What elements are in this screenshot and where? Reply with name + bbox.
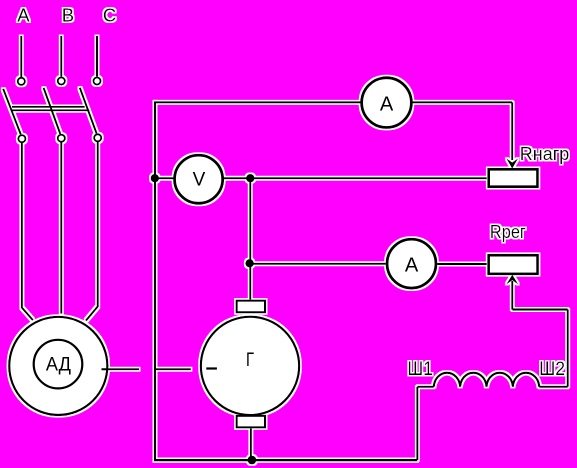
generator minus mark xyxy=(206,367,217,369)
resistor Rнагр xyxy=(489,169,538,186)
switch S1 top contact xyxy=(18,78,25,85)
svg-text:АД: АД xyxy=(46,355,71,376)
svg-text:Ш1: Ш1 xyxy=(407,359,432,380)
switch S3 blade xyxy=(80,88,97,134)
wire top to ammeter A1 xyxy=(155,101,361,103)
motor shaft dash 1 xyxy=(102,368,140,370)
wire middle vertical xyxy=(249,178,251,299)
voltmeter V xyxy=(175,155,223,203)
switch S1 bottom contact xyxy=(18,135,25,142)
arrow onto Rрег wiper xyxy=(506,275,518,285)
switch S3 top contact xyxy=(93,77,100,84)
switch coupling bar lower line xyxy=(11,109,89,111)
junction dot at left bus xyxy=(151,174,159,182)
wire phase C to motor xyxy=(86,142,98,321)
wire to ammeter A2 xyxy=(250,263,386,265)
resistor Rрег xyxy=(489,255,538,274)
wire phase B to motor xyxy=(60,143,62,314)
wire right vertical to winding xyxy=(567,310,569,387)
svg-text:В: В xyxy=(62,5,74,26)
ammeter A1 xyxy=(362,78,412,128)
generator Г circle xyxy=(201,317,299,415)
wire winding Ш2 lead xyxy=(539,386,568,388)
motor АД outer circle xyxy=(9,317,107,415)
wire ammeter A1 to corner xyxy=(412,101,512,103)
svg-text:С: С xyxy=(103,5,116,26)
switch S2 blade xyxy=(44,88,61,134)
svg-text:Rнагр: Rнагр xyxy=(520,143,570,164)
inductor field winding Ш1-Ш2 xyxy=(434,373,539,387)
wire bottom bus xyxy=(154,459,417,461)
junction dot bottom bus xyxy=(248,456,257,465)
arrow onto Rнагр xyxy=(506,158,518,168)
wire down to Rнагр wiper xyxy=(511,102,513,160)
switch S2 top contact xyxy=(58,77,65,84)
svg-text:А: А xyxy=(380,93,394,115)
wire phase B lead xyxy=(60,36,62,77)
switch S2 bottom contact xyxy=(58,135,65,142)
svg-text:Rрег: Rрег xyxy=(490,222,526,242)
wire phase C lead xyxy=(96,36,98,77)
wire winding down to bottom bus xyxy=(416,387,418,460)
wire phase A to motor xyxy=(22,143,33,320)
switch coupling bar upper line xyxy=(12,106,85,108)
wire generator bottom lead xyxy=(250,428,252,460)
wire phase A lead xyxy=(20,36,22,77)
switch S3 bottom contact xyxy=(94,134,101,141)
svg-text:Г: Г xyxy=(246,349,254,371)
wire Rрег wiper down xyxy=(511,281,513,310)
svg-text:А: А xyxy=(17,5,30,26)
switch S1 blade xyxy=(3,89,21,135)
junction dot armature node xyxy=(245,259,253,267)
motor shaft dash 2 xyxy=(155,368,191,370)
junction dot V output xyxy=(246,174,254,182)
wire ammeter A2 to Rрег xyxy=(437,263,487,265)
wire junction1 to voltmeter xyxy=(155,177,174,179)
svg-text:А: А xyxy=(405,254,419,276)
ammeter A2 xyxy=(387,239,436,288)
motor АД inner circle xyxy=(34,340,83,389)
wire winding Ш1 lead xyxy=(417,386,433,388)
svg-text:V: V xyxy=(193,170,206,191)
wire voltmeter to Rнагр xyxy=(224,177,487,179)
wire left vertical bus xyxy=(154,101,156,460)
generator Г bottom brush box xyxy=(237,416,265,428)
generator Г top brush box xyxy=(237,301,265,313)
wire wiper corner horizontal xyxy=(512,309,567,311)
svg-text:Ш2: Ш2 xyxy=(539,359,565,380)
